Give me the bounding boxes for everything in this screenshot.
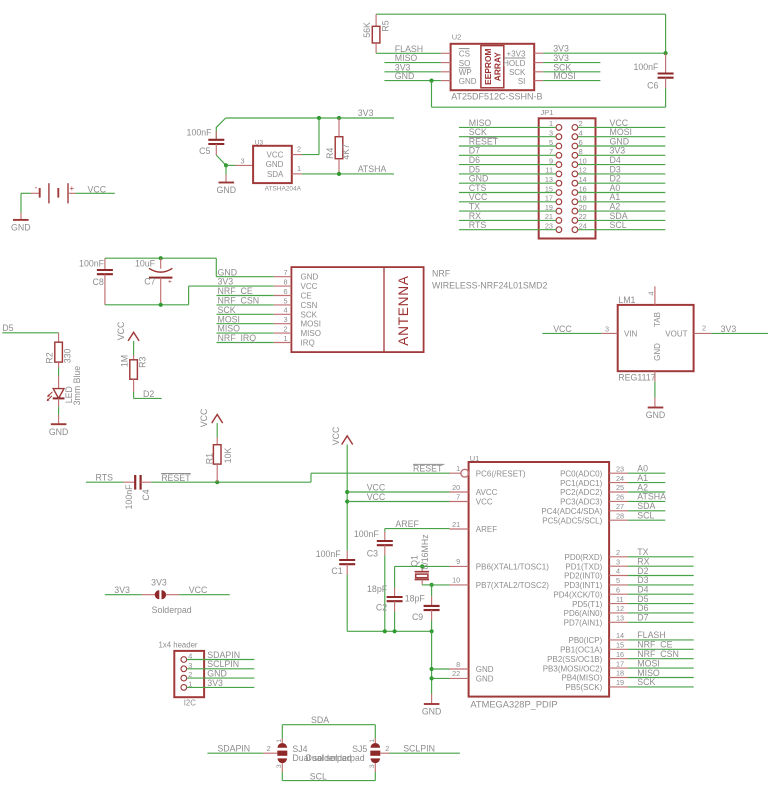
svg-text:+: + <box>168 278 172 285</box>
svg-text:PC4(ADC4/SDA): PC4(ADC4/SDA) <box>541 507 602 516</box>
svg-text:11: 11 <box>616 595 624 604</box>
ground (LED) <box>49 398 69 436</box>
wire SDAPIN (SJ4 pin 2) <box>207 744 277 754</box>
wire RTS (JP1 pin 23) <box>459 220 556 230</box>
svg-text:PD1(TXD): PD1(TXD) <box>565 562 602 571</box>
svg-text:3: 3 <box>616 557 620 566</box>
svg-text:VOUT: VOUT <box>665 329 687 338</box>
svg-text:AREF: AREF <box>476 525 497 534</box>
LED D? 3mm Blue <box>47 362 82 405</box>
svg-text:18: 18 <box>616 669 624 678</box>
wire D2 (JP1 pin 14) <box>578 174 666 184</box>
svg-text:GND: GND <box>395 71 415 81</box>
solder jumper SJ5 dual solderpad <box>306 739 381 773</box>
wire A2 (JP1 pin 20) <box>578 202 666 212</box>
svg-text:GND: GND <box>476 665 494 674</box>
svg-text:RESET: RESET <box>413 464 443 474</box>
svg-text:HOLD: HOLD <box>503 59 525 68</box>
svg-text:PD5(T1): PD5(T1) <box>572 600 603 609</box>
svg-text:ANTENNA: ANTENNA <box>396 275 411 346</box>
svg-text:IRQ: IRQ <box>301 339 315 348</box>
svg-text:SCK: SCK <box>637 677 655 687</box>
svg-text:PD7(AIN1): PD7(AIN1) <box>564 619 603 628</box>
wire D5 (JP1 pin 11) <box>459 164 556 174</box>
wire NRF_CE (U1) <box>628 640 694 650</box>
svg-text:1: 1 <box>284 334 288 343</box>
svg-text:23: 23 <box>616 464 624 473</box>
svg-text:18pF: 18pF <box>405 593 426 603</box>
wire 3V3 (JP1 pin 8) <box>578 146 666 156</box>
wire D2 (R3 bottom) <box>134 389 162 399</box>
svg-text:1: 1 <box>369 739 376 743</box>
solderpad SP 3V3/VCC <box>105 578 230 615</box>
svg-text:100nF: 100nF <box>79 259 105 269</box>
svg-text:3V3: 3V3 <box>358 108 374 118</box>
svg-text:VCC: VCC <box>476 498 493 507</box>
wire 3V3 (U2 HOLD) <box>543 53 600 63</box>
wire XTAL2 (U1 pin 10) <box>422 583 449 597</box>
wire U3 VCC to 3V3 <box>302 118 319 155</box>
capacitor C9 18pF <box>405 593 440 631</box>
resistor R5 56K <box>362 14 391 53</box>
svg-text:REG1117: REG1117 <box>618 373 655 383</box>
svg-text:PC2(ADC2): PC2(ADC2) <box>560 488 603 497</box>
wire VCC (U1 VCC pin 7) <box>347 492 449 502</box>
wire D6 (JP1 pin 9) <box>459 155 556 165</box>
svg-text:SCLPIN: SCLPIN <box>403 744 435 754</box>
svg-text:SCL: SCL <box>310 771 327 781</box>
svg-text:R2: R2 <box>44 352 54 363</box>
svg-text:9: 9 <box>456 557 460 566</box>
svg-text:4K7: 4K7 <box>341 144 351 160</box>
capacitor C7 10uF polarized <box>135 258 172 305</box>
svg-text:C3: C3 <box>367 548 378 558</box>
svg-text:C9: C9 <box>412 612 423 622</box>
wire XTAL1 (U1 pin 9) <box>395 564 450 587</box>
svg-text:GND: GND <box>422 707 442 717</box>
wire RX (U1) <box>628 557 694 567</box>
svg-text:3V3: 3V3 <box>151 578 167 588</box>
resistor R3 1M <box>120 355 148 392</box>
svg-text:PB3(MOSI/OC2): PB3(MOSI/OC2) <box>543 664 603 673</box>
wire SCK (NRF pin 4) <box>217 305 274 315</box>
wire SDA (U1) <box>628 501 665 511</box>
svg-text:SI: SI <box>518 77 526 86</box>
IC U1 ATMEGA328P_PDIP <box>450 454 629 710</box>
svg-text:Dual solderpad: Dual solderpad <box>306 753 365 763</box>
svg-text:GND: GND <box>49 427 69 437</box>
wire CTS (JP1 pin 15) <box>459 183 556 193</box>
ground (REG1117) <box>646 382 666 421</box>
svg-text:MOSI: MOSI <box>553 71 575 81</box>
svg-text:22: 22 <box>452 669 460 678</box>
svg-text:Solderpad: Solderpad <box>152 605 192 615</box>
svg-text:1: 1 <box>276 739 283 743</box>
svg-text:LM1: LM1 <box>618 295 635 305</box>
wire A0 (U1) <box>628 464 665 474</box>
svg-text:D7: D7 <box>637 613 648 623</box>
svg-text:-: - <box>35 183 38 192</box>
wire GND (U1 pin 22) <box>432 677 450 679</box>
svg-text:C2: C2 <box>376 603 387 613</box>
svg-text:SCK: SCK <box>301 310 318 319</box>
capacitor C8 100nF <box>79 258 113 287</box>
svg-text:7: 7 <box>456 492 460 501</box>
ground (U1) <box>422 694 442 717</box>
svg-text:GND: GND <box>301 273 319 282</box>
wire AREF (U1 pin 21 to C3) <box>385 519 450 531</box>
svg-text:100nF: 100nF <box>316 549 342 559</box>
svg-text:20: 20 <box>452 483 460 492</box>
wire VCC (U1 AVCC pin 20) <box>347 482 449 492</box>
resistor R4 4K7 <box>325 118 351 174</box>
wire SDA (JP1 pin 22) <box>578 211 666 221</box>
svg-text:I2C: I2C <box>184 699 197 708</box>
svg-text:WIRELESS-NRF24L01SMD2: WIRELESS-NRF24L01SMD2 <box>432 280 547 290</box>
svg-text:4: 4 <box>284 306 288 315</box>
connector JP1 header <box>539 108 596 239</box>
wire MOSI (U2 SI) <box>543 71 600 81</box>
svg-text:JP1: JP1 <box>541 108 554 117</box>
wire SCK (U1) <box>628 677 694 687</box>
wire 3V3 (I2C pin 1) <box>187 678 255 688</box>
wire GND (NRF pin 7) <box>216 267 273 277</box>
svg-text:VCC: VCC <box>199 408 209 427</box>
wire MISO (U2 SO) <box>384 53 441 63</box>
svg-text:3V3: 3V3 <box>721 324 737 334</box>
svg-text:10K: 10K <box>223 448 233 464</box>
wire FLASH (U1) <box>628 630 694 640</box>
svg-text:17: 17 <box>616 659 624 668</box>
svg-text:CE: CE <box>301 292 312 301</box>
connector I2C 1x4 header <box>159 641 205 708</box>
svg-text:GND: GND <box>646 410 666 420</box>
crystal Q1 8/16MHz <box>409 534 430 585</box>
wire D6 (U1) <box>628 603 694 613</box>
svg-text:PC6(/RESET): PC6(/RESET) <box>476 469 526 478</box>
svg-text:18pF: 18pF <box>367 584 388 594</box>
svg-text:VCC: VCC <box>88 184 107 194</box>
svg-text:ATSHA204A: ATSHA204A <box>265 185 302 192</box>
svg-text:ARRAY: ARRAY <box>493 52 503 81</box>
svg-text:PC1(ADC1): PC1(ADC1) <box>560 479 603 488</box>
wire VCC (REG1117 VIN) <box>542 324 601 334</box>
svg-text:C8: C8 <box>93 277 104 287</box>
svg-text:12: 12 <box>616 604 624 613</box>
wire A1 (JP1 pin 18) <box>578 192 666 202</box>
wire SCL (U1) <box>628 511 665 521</box>
wire 3V3 (U2 WP) <box>384 62 441 72</box>
svg-text:10uF: 10uF <box>135 258 156 268</box>
svg-text:2: 2 <box>284 325 288 334</box>
wire RTS (to C4) <box>86 473 124 483</box>
svg-text:1M: 1M <box>120 355 130 367</box>
svg-text:VCC: VCC <box>367 482 386 492</box>
svg-text:RTS: RTS <box>96 473 114 483</box>
wire RESET (JP1 pin 5) <box>459 136 556 146</box>
wire A2 (U1) <box>628 482 665 492</box>
wire U3 pin 3 <box>226 156 253 165</box>
svg-text:VCC: VCC <box>367 492 386 502</box>
svg-text:GND: GND <box>653 343 662 361</box>
wire NRF_CE (NRF pin 6) <box>217 286 274 296</box>
svg-text:D2: D2 <box>143 389 154 399</box>
svg-text:21: 21 <box>452 520 460 529</box>
svg-text:C5: C5 <box>199 146 210 156</box>
IC LM1 REG1117 regulator <box>601 286 711 382</box>
wire NRF_CSN (U1) <box>628 649 694 659</box>
svg-text:PC5(ADC5/SCL): PC5(ADC5/SCL) <box>542 516 602 525</box>
svg-text:2: 2 <box>267 744 271 753</box>
svg-text:5: 5 <box>616 576 620 585</box>
wire D2 (U1) <box>628 566 694 576</box>
wire D3 (JP1 pin 12) <box>578 164 666 174</box>
svg-text:ATSHA: ATSHA <box>358 164 387 174</box>
svg-text:RTS: RTS <box>469 220 487 230</box>
svg-text:100nF: 100nF <box>633 62 659 72</box>
svg-text:100nF: 100nF <box>187 127 213 137</box>
svg-text:3V3: 3V3 <box>207 678 223 688</box>
wire MOSI (U1) <box>628 658 694 668</box>
svg-text:1: 1 <box>456 464 460 473</box>
svg-text:Q1: Q1 <box>409 555 419 567</box>
wire SCL (SJ4 to SJ5) <box>282 771 375 781</box>
svg-text:24: 24 <box>616 474 624 483</box>
wire SCL (JP1 pin 24) <box>578 220 666 230</box>
capacitor C1 100nF <box>316 549 355 631</box>
wire 3V3 (ATSHA supply) <box>226 108 394 120</box>
svg-text:PB0(ICP): PB0(ICP) <box>569 636 603 645</box>
svg-text:CS: CS <box>459 49 470 58</box>
svg-text:PC0(ADC0): PC0(ADC0) <box>560 469 603 478</box>
svg-text:VCC: VCC <box>331 426 341 445</box>
wire 3V3 (NRF pin 8) <box>217 277 274 287</box>
wire NRF_IRQ (NRF pin 1) <box>217 333 274 343</box>
svg-text:7: 7 <box>284 268 288 277</box>
svg-text:SCK: SCK <box>509 68 526 77</box>
svg-text:SO: SO <box>459 59 471 68</box>
svg-text:8: 8 <box>456 660 460 669</box>
wire SDA (SJ4 to SJ5) <box>282 715 375 738</box>
wire D5 (U1) <box>628 594 694 604</box>
svg-text:VCC: VCC <box>189 585 208 595</box>
svg-text:PB1(OC1A): PB1(OC1A) <box>560 646 603 655</box>
svg-text:6: 6 <box>284 287 288 296</box>
wire TX (JP1 pin 19) <box>459 202 556 212</box>
svg-text:100nF: 100nF <box>124 484 134 510</box>
svg-text:CSN: CSN <box>301 301 318 310</box>
svg-text:3: 3 <box>284 315 288 324</box>
wire GND rail (C1/C3/C2/C9 to U1 GND) <box>347 629 434 694</box>
svg-text:R3: R3 <box>137 356 147 367</box>
wire SDAPIN (I2C pin 4) <box>187 650 255 660</box>
svg-text:1: 1 <box>297 164 301 173</box>
svg-text:C1: C1 <box>331 566 342 576</box>
wire D5 (to R2) <box>2 323 58 342</box>
resistor R1 10K <box>204 438 233 483</box>
svg-text:PD3(INT1): PD3(INT1) <box>564 581 603 590</box>
wire GND (U1 pin 8) <box>432 668 450 670</box>
svg-text:PB4(MISO): PB4(MISO) <box>561 674 602 683</box>
ground (battery) <box>11 213 31 233</box>
svg-text:MISO: MISO <box>301 329 321 338</box>
capacitor C6 100nF <box>633 53 673 90</box>
svg-text:PB6(XTAL1/TOSC1): PB6(XTAL1/TOSC1) <box>476 563 549 572</box>
node GND/pin3 junction (C5) <box>224 163 228 167</box>
svg-text:2: 2 <box>616 548 620 557</box>
wire SCLPIN (I2C pin 3) <box>187 659 255 669</box>
power VCC (R3) <box>116 321 139 355</box>
svg-text:3V3: 3V3 <box>114 585 130 595</box>
wire 3V3 (U2 +3V3 to C6) <box>543 44 668 56</box>
svg-text:3: 3 <box>240 156 244 165</box>
svg-text:14: 14 <box>616 631 624 640</box>
svg-text:AVCC: AVCC <box>476 488 498 497</box>
wire SCLPIN (SJ5 pin 2) <box>380 744 460 754</box>
svg-text:SCL: SCL <box>610 220 627 230</box>
power VCC (R1) <box>199 408 223 437</box>
svg-text:3: 3 <box>605 325 609 334</box>
wire A0 (JP1 pin 16) <box>578 183 666 193</box>
power VCC (U1 supply) <box>331 426 353 551</box>
svg-text:PD0(RXD): PD0(RXD) <box>565 553 603 562</box>
wire FLASH (R5 to U2 CS) <box>376 44 441 54</box>
wire MISO (NRF pin 2) <box>217 324 274 334</box>
svg-text:26: 26 <box>616 493 624 502</box>
svg-text:NRF_IRQ: NRF_IRQ <box>218 333 257 343</box>
svg-text:R1: R1 <box>204 453 214 464</box>
svg-text:19: 19 <box>616 678 624 687</box>
svg-text:SDAPIN: SDAPIN <box>217 744 250 754</box>
svg-text:15: 15 <box>616 641 624 650</box>
wire 3V3 (C8/C7 bottom rail to NRF VCC) <box>105 286 217 307</box>
svg-text:EEPROM: EEPROM <box>483 49 493 85</box>
wire RESET (C4 to U1 pin1) <box>151 464 450 485</box>
wire D4 (U1) <box>628 585 694 595</box>
svg-text:56K: 56K <box>362 22 372 38</box>
module NRF WIRELESS-NRF24L01SMD2 <box>274 267 548 352</box>
svg-text:RESET: RESET <box>161 473 191 483</box>
wire MISO (U1) <box>628 668 694 678</box>
svg-text:+: + <box>69 184 74 193</box>
svg-text:10: 10 <box>452 576 460 585</box>
svg-text:PB2(SS/OC1B): PB2(SS/OC1B) <box>547 655 602 664</box>
svg-text:NRF: NRF <box>432 269 451 279</box>
svg-text:GND: GND <box>476 675 494 684</box>
wire D7 (JP1 pin 7) <box>459 146 556 156</box>
capacitor C5 100nF <box>187 118 226 165</box>
svg-text:5: 5 <box>284 296 288 305</box>
svg-text:27: 27 <box>616 502 624 511</box>
svg-text:2: 2 <box>702 324 706 333</box>
svg-text:C7: C7 <box>144 277 155 287</box>
wire 3V3 (REG1117 VOUT) <box>711 324 768 334</box>
svg-text:GND: GND <box>217 185 237 195</box>
svg-text:PD6(AIN0): PD6(AIN0) <box>564 609 603 618</box>
svg-text:TAB: TAB <box>653 312 662 327</box>
wire ATSHA (U3 SDA) <box>302 164 394 176</box>
wire D4 (JP1 pin 10) <box>578 155 666 165</box>
svg-text:ATMEGA328P_PDIP: ATMEGA328P_PDIP <box>470 700 557 710</box>
wire SCK (JP1 pin 3) <box>459 127 556 137</box>
svg-text:GND: GND <box>11 223 31 233</box>
wire VCC (JP1 pin 2) <box>578 118 666 128</box>
wire D3 (U1) <box>628 575 694 585</box>
wire D7 (U1) <box>628 613 694 623</box>
svg-text:VCC: VCC <box>553 324 572 334</box>
svg-text:SDA: SDA <box>267 170 284 179</box>
solder jumper SJ4 dual solderpad <box>276 739 352 773</box>
wire SCK (U2) <box>543 62 600 72</box>
svg-text:C4: C4 <box>141 489 151 500</box>
wire GND (C8/C7 top rail to NRF GND) <box>105 256 216 277</box>
ground (C5/U3) <box>217 165 237 195</box>
wire NRF_CSN (NRF pin 5) <box>217 296 274 306</box>
wire RX (JP1 pin 21) <box>459 211 556 221</box>
svg-text:28: 28 <box>616 511 624 520</box>
svg-text:8/16MHz: 8/16MHz <box>420 534 430 569</box>
svg-text:100nF: 100nF <box>354 529 380 539</box>
svg-text:SDA: SDA <box>311 715 329 725</box>
svg-text:PD4(XCK/T0): PD4(XCK/T0) <box>553 590 602 599</box>
svg-text:1x4 header: 1x4 header <box>159 641 198 650</box>
svg-text:330: 330 <box>62 348 72 363</box>
svg-text:PD2(INT0): PD2(INT0) <box>564 572 603 581</box>
svg-text:+3V3: +3V3 <box>506 49 525 58</box>
svg-text:R5: R5 <box>381 20 391 31</box>
svg-text:8: 8 <box>284 278 288 287</box>
svg-text:SCL: SCL <box>637 511 654 521</box>
svg-text:PC3(ADC3): PC3(ADC3) <box>560 498 603 507</box>
wire MISO (JP1 pin 1) <box>459 118 556 128</box>
svg-text:C6: C6 <box>647 80 658 90</box>
wire GND (I2C pin 2) <box>187 669 255 679</box>
svg-text:3mm Blue: 3mm Blue <box>72 366 82 406</box>
IC U2 AT25DF512C flash <box>441 33 543 102</box>
wire VCC (JP1 pin 17) <box>459 192 556 202</box>
capacitor C2 18pF <box>367 584 403 631</box>
wire MOSI (JP1 pin 4) <box>578 127 666 137</box>
svg-text:4: 4 <box>616 567 620 576</box>
svg-text:PB5(SCK): PB5(SCK) <box>565 683 602 692</box>
wire MOSI (NRF pin 3) <box>217 314 274 324</box>
capacitor C4 100nF series <box>123 475 151 509</box>
svg-text:VCC: VCC <box>116 321 126 340</box>
svg-text:2: 2 <box>297 145 301 154</box>
svg-text:AREF: AREF <box>395 519 419 529</box>
svg-text:GND: GND <box>459 77 477 86</box>
wire 3V3 (R5 top to C6 top) <box>376 14 665 53</box>
IC U3 ATSHA204A <box>253 140 302 193</box>
svg-text:VCC: VCC <box>301 282 318 291</box>
svg-text:13: 13 <box>616 614 624 623</box>
svg-text:MOSI: MOSI <box>301 320 321 329</box>
wire A1 (U1) <box>628 473 665 483</box>
svg-text:GND: GND <box>266 160 284 169</box>
svg-text:VIN: VIN <box>624 329 638 338</box>
svg-text:16: 16 <box>616 650 624 659</box>
svg-text:D5: D5 <box>2 323 13 333</box>
svg-text:PB7(XTAL2/TOSC2): PB7(XTAL2/TOSC2) <box>476 581 549 590</box>
svg-text:2: 2 <box>385 744 389 753</box>
wire TX (U1) <box>628 547 694 557</box>
resistor R2 330 <box>44 342 72 363</box>
wire GND (JP1 pin 6) <box>578 136 666 146</box>
svg-text:WP: WP <box>459 68 472 77</box>
svg-text:3: 3 <box>369 764 376 768</box>
svg-text:U2: U2 <box>452 33 462 42</box>
wire VCC (battery output) <box>21 184 115 212</box>
